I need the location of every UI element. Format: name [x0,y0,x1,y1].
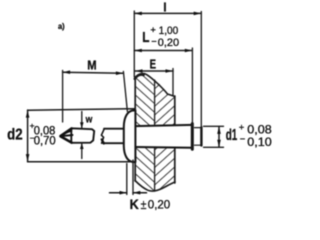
mandrel head at blind end [195,128,202,146]
dimension d2 extension lines [28,109,135,111]
rivet flange (set head) [124,110,136,162]
svg-text:l: l [163,1,166,15]
svg-text:a): a) [58,21,65,31]
plate section hatching left sheet [130,68,160,196]
svg-text:−: − [240,134,246,145]
svg-text:d2: d2 [7,127,23,144]
svg-text:±: ± [141,197,147,212]
plate joint seam [154,80,156,191]
plate right face [174,96,176,183]
rivet body (shank) through plate [135,125,192,148]
svg-text:0,20: 0,20 [148,198,171,212]
svg-text:0,70: 0,70 [34,134,56,147]
dimension E [135,70,173,72]
dimension d2 line [27,110,29,162]
svg-text:M: M [87,57,96,72]
mandrel point cone [61,129,72,137]
mandrel stem protruding left of flange [104,129,126,143]
svg-text:1,00: 1,00 [159,25,179,37]
svg-text:0,20: 0,20 [158,37,179,49]
svg-text:0,10: 0,10 [247,136,271,149]
plate left face [134,77,136,181]
dimension M [63,72,124,73]
svg-text:d1: d1 [226,127,238,144]
svg-text:L: L [142,29,149,46]
dimension d1 [204,125,224,127]
dimension w [81,112,83,129]
dimension K [126,164,128,195]
svg-text:+: + [239,123,245,134]
svg-text:w: w [85,113,93,125]
svg-text:K: K [130,196,139,212]
mandrel stem break (jagged) [101,129,104,144]
svg-text:+: + [150,25,156,36]
dimension L [134,50,192,52]
svg-text:−: − [151,36,157,47]
svg-text:E: E [150,57,157,72]
plate top break edge [135,73,175,96]
plate section hatching right sheet [150,68,180,196]
rivet body end face [191,124,194,150]
plate bottom break edge [135,181,175,192]
svg-text:0,08: 0,08 [247,124,271,137]
dimension l (top) [134,12,201,14]
broken-off mandrel head (left piece) [71,128,94,143]
